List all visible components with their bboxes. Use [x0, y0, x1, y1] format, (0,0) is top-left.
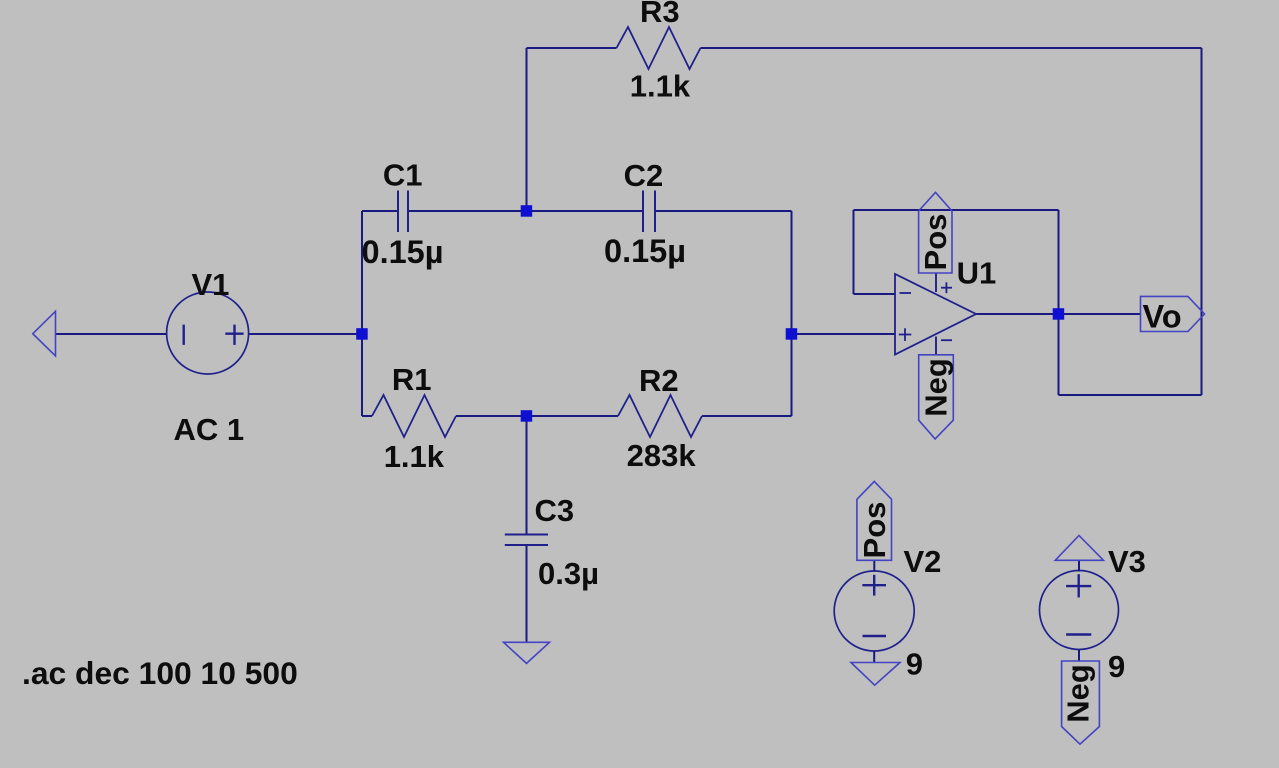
- svg-text:AC 1: AC 1: [174, 412, 245, 447]
- voltage source V2: [834, 571, 914, 651]
- svg-text:Pos: Pos: [857, 502, 892, 559]
- svg-text:Neg: Neg: [919, 358, 954, 417]
- wire: [853, 210, 855, 294]
- voltage source V1: [167, 292, 249, 374]
- wire: [854, 209, 1059, 211]
- svg-text:9: 9: [1108, 649, 1125, 684]
- wire: [1078, 649, 1080, 661]
- ground at C3: [504, 642, 550, 663]
- svg-text:Pos: Pos: [918, 214, 953, 271]
- flag Neg at V3: [1062, 661, 1100, 744]
- svg-text:C2: C2: [624, 158, 664, 193]
- svg-text:V3: V3: [1108, 544, 1146, 579]
- svg-text:Neg: Neg: [1061, 664, 1096, 723]
- wire: [791, 211, 793, 416]
- wire: [361, 211, 363, 416]
- svg-text:R3: R3: [640, 0, 680, 29]
- svg-text:1.1k: 1.1k: [630, 68, 691, 103]
- wire: [527, 210, 643, 212]
- junction node C: [521, 410, 533, 422]
- wire: [362, 210, 398, 212]
- ground at V2: [851, 663, 900, 686]
- wire: [1058, 210, 1060, 395]
- wire: [873, 561, 875, 572]
- svg-text:0.3µ: 0.3µ: [538, 556, 599, 591]
- wire: [362, 415, 372, 417]
- op-amp U1: [895, 274, 976, 355]
- capacitor C1: [398, 191, 408, 233]
- flag Neg at U1: [919, 355, 954, 439]
- wire: [249, 333, 362, 335]
- svg-text:V1: V1: [192, 267, 230, 302]
- wire: [655, 210, 792, 212]
- resistor R1: [372, 395, 456, 437]
- wire: [701, 47, 1202, 49]
- svg-text:9: 9: [906, 647, 923, 682]
- svg-text:.ac dec 100 10 500: .ac dec 100 10 500: [22, 655, 298, 691]
- wire: [526, 545, 528, 642]
- svg-text:C1: C1: [383, 158, 423, 193]
- wire: [854, 293, 896, 295]
- wire: [526, 416, 528, 535]
- wire: [702, 415, 792, 417]
- junction node D: [786, 328, 798, 340]
- wire: [527, 47, 617, 49]
- svg-text:U1: U1: [957, 256, 997, 291]
- junction node E: [1053, 308, 1065, 320]
- wire: [1078, 560, 1080, 571]
- flag Pos at V2: [857, 481, 892, 560]
- svg-text:Vo: Vo: [1143, 299, 1182, 335]
- wire: [456, 415, 527, 417]
- wire: [1059, 394, 1202, 396]
- wire: [792, 333, 896, 335]
- voltage source V3: [1040, 571, 1119, 650]
- svg-text:V2: V2: [904, 544, 942, 579]
- junction node B: [521, 205, 533, 217]
- flag Pos at U1: [919, 192, 952, 273]
- wire: [873, 651, 875, 663]
- wire: [976, 313, 1141, 315]
- svg-text:R1: R1: [392, 362, 432, 397]
- svg-text:1.1k: 1.1k: [384, 439, 445, 474]
- wire: [56, 333, 168, 335]
- svg-text:R2: R2: [639, 363, 679, 398]
- junction node A: [356, 328, 368, 340]
- ground at V1 minus: [33, 311, 56, 356]
- net flag Vo: [1141, 296, 1205, 331]
- ground arrow up at V3: [1055, 536, 1103, 561]
- capacitor C3: [505, 535, 548, 546]
- svg-text:283k: 283k: [627, 438, 697, 473]
- wire: [408, 210, 527, 212]
- svg-text:C3: C3: [535, 493, 575, 528]
- resistor R3: [617, 27, 701, 69]
- resistor R2: [618, 395, 702, 437]
- svg-text:0.15µ: 0.15µ: [604, 233, 686, 269]
- wire: [527, 415, 618, 417]
- svg-text:0.15µ: 0.15µ: [362, 234, 444, 270]
- capacitor C2: [643, 191, 655, 233]
- wire: [1201, 48, 1203, 395]
- wire: [526, 48, 528, 211]
